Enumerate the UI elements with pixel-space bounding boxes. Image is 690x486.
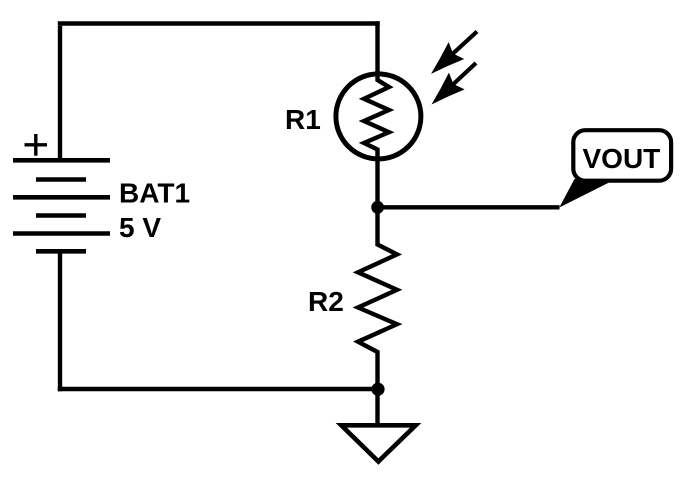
photoresistor R1 zigzag element [364,74,389,161]
wire: top rail horizontal [58,21,380,25]
battery plate 4 (short) [36,213,86,218]
wire: R1 bottom to node VOUT [375,158,379,208]
battery plate 6 (short, -) [36,249,86,254]
wire: ground node down to ground symbol [375,389,379,425]
battery plate 5 (long) [13,231,110,236]
wire: VOUT node to callout tail [378,205,560,209]
svg-text:R2: R2 [308,286,344,317]
light arrow 1 shaft [450,32,477,57]
battery plate 2 (short) [36,177,86,182]
light arrow 2 head [432,73,465,105]
svg-text:R1: R1 [285,104,321,135]
ground symbol triangle [341,425,415,461]
svg-text:5 V: 5 V [119,212,161,243]
resistor R2 zigzag [358,206,397,390]
node B junction dot (ground node) [371,383,384,396]
light arrow 2 shaft [450,63,476,87]
VOUT flag box [573,130,671,181]
svg-text:VOUT: VOUT [583,143,661,174]
VOUT callout tail [559,179,616,208]
photoresistor R1 body circle [336,74,421,159]
battery plate 3 (long) [13,195,110,200]
light arrow 1 head [431,42,464,74]
wire: bottom rail horizontal to ground node [58,387,378,391]
node A junction dot (VOUT node) [371,201,384,214]
wire: battery - terminal down to bottom rail [58,251,62,391]
wire: battery + terminal up to top rail [58,26,62,160]
wire: top rail down to R1 top [375,21,379,74]
battery + polarity sign [25,134,48,156]
battery BAT1 plate 1 (long, +) [13,158,110,163]
svg-text:BAT1: BAT1 [119,178,190,209]
